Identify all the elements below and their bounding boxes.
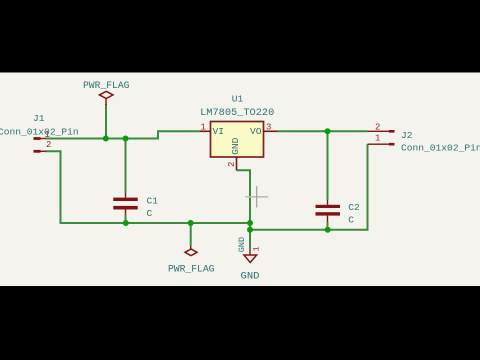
svg-text:GND: GND (230, 137, 241, 155)
svg-text:Conn_01x02_Pin: Conn_01x02_Pin (401, 143, 480, 154)
C2 reference label (348, 202, 360, 213)
wire C1 top drop (125, 139, 127, 193)
svg-text:GND: GND (237, 237, 247, 252)
op-amp U1 body LM7805_TO220 (211, 122, 264, 158)
connector J2 pin 2 (368, 130, 395, 133)
ground symbol GND (244, 248, 257, 263)
wire C2 bottom (327, 222, 329, 230)
junction at C2 top (325, 128, 331, 134)
junction at C1 top (123, 136, 129, 142)
PWR_FLAG top label (83, 80, 130, 91)
svg-text:2: 2 (46, 140, 51, 150)
GND pin 1 number sideways (251, 246, 261, 251)
svg-text:J2: J2 (401, 130, 413, 141)
svg-text:2: 2 (227, 162, 237, 167)
C2 value label (348, 215, 354, 226)
svg-text:LM7805_TO220: LM7805_TO220 (200, 107, 274, 119)
wire U1 pin2 to GND (237, 170, 251, 248)
junction at PWR_FLAG2 (188, 220, 194, 226)
junction at C1 bottom (123, 220, 129, 226)
cursor crosshair (245, 186, 268, 208)
U1 pin 3 VO (264, 130, 278, 132)
svg-text:GND: GND (241, 270, 260, 282)
svg-text:VI: VI (213, 126, 225, 137)
svg-text:VO: VO (250, 126, 262, 137)
wire J1 pin2 down (45, 151, 61, 223)
svg-text:3: 3 (266, 123, 271, 133)
wire U1 pin3 to J2 pin2 (278, 130, 368, 132)
connector J1 pin 2 (34, 150, 46, 153)
U1 value label LM7805_TO220 (200, 107, 274, 119)
U1 pin 1 VI (200, 130, 211, 132)
GND pin name sideways (237, 237, 247, 252)
J1 reference label (33, 113, 45, 124)
junction at PWR_FLAG1 (103, 136, 109, 142)
GND net label (241, 270, 260, 282)
U1 pin 1 name VI (213, 126, 225, 137)
capacitor C1 (113, 193, 137, 215)
wire left ground rail (60, 222, 251, 224)
J2 pin 1 number (375, 134, 380, 144)
svg-text:Conn_01x02_Pin: Conn_01x02_Pin (0, 126, 79, 137)
wire PWR_FLAG1 drop (105, 104, 107, 139)
U1 pin 3 name VO (250, 126, 262, 137)
svg-text:J1: J1 (33, 113, 45, 124)
svg-text:1: 1 (375, 134, 380, 144)
wire PWR_FLAG2 drop (190, 223, 192, 246)
capacitor C2 (316, 200, 341, 222)
svg-text:2: 2 (375, 122, 380, 132)
J1 pin 1 number (45, 130, 50, 140)
PWR_FLAG bottom label (168, 263, 215, 274)
J2 reference label (401, 130, 413, 141)
U1 pin 1 number (201, 123, 206, 133)
J1 pin 2 number (46, 140, 51, 150)
wire step up (157, 131, 159, 139)
J1 value label Conn_01x02_Pin (0, 126, 79, 137)
wire J2 pin1 down (367, 144, 369, 231)
svg-text:PWR_FLAG: PWR_FLAG (83, 80, 130, 91)
U1 pin 2 name GND vertical (230, 137, 241, 155)
C1 value label (147, 208, 153, 219)
svg-text:PWR_FLAG: PWR_FLAG (168, 263, 215, 274)
svg-text:C: C (147, 208, 153, 219)
U1 pin 2 GND (236, 157, 238, 170)
U1 pin 3 number (266, 123, 271, 133)
wire J1 pin1 to step (45, 138, 158, 140)
power flag PWR_FLAG bottom (185, 246, 197, 256)
junction left rail to GND wire (247, 220, 253, 226)
wire step to U1 pin1 (157, 130, 200, 132)
wire C1 bottom (125, 215, 127, 224)
wire right ground rail (250, 229, 368, 231)
U1 reference label (232, 94, 244, 105)
svg-text:U1: U1 (232, 94, 244, 105)
connector J2 pin 1 (368, 143, 395, 146)
wire C2 top drop (327, 131, 329, 200)
svg-text:C1: C1 (147, 195, 159, 206)
svg-text:C: C (348, 215, 354, 226)
connector J1 pin 1 (34, 137, 46, 140)
svg-text:1: 1 (201, 123, 206, 133)
J2 value label Conn_01x02_Pin (401, 143, 480, 154)
C1 reference label (147, 195, 159, 206)
junction right rail to GND wire (247, 227, 253, 233)
U1 pin 2 number (227, 162, 237, 167)
svg-text:1: 1 (251, 246, 261, 251)
junction at C2 bottom (325, 227, 331, 233)
power flag PWR_FLAG top (99, 91, 113, 105)
svg-text:C2: C2 (348, 202, 360, 213)
J2 pin 2 number (375, 122, 380, 132)
